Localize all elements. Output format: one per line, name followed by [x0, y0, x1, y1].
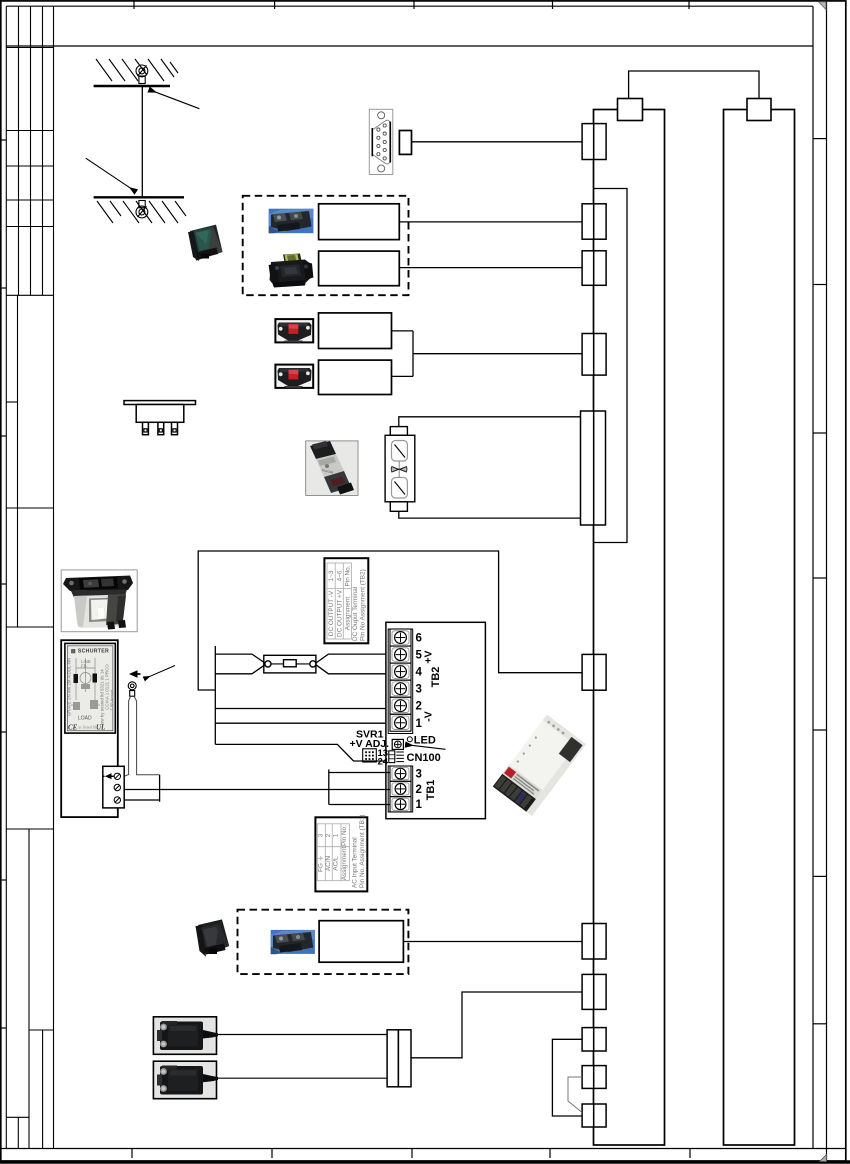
- leader arrow to earth lug: [144, 666, 175, 679]
- svg-text:24: 24: [378, 757, 389, 768]
- label box S1: [319, 313, 392, 349]
- ring terminal earth lug: [128, 682, 136, 696]
- svg-text:CCIAA 1 0121 1 PRCO: CCIAA 1 0121 1 PRCO: [105, 664, 110, 710]
- svg-text:1: 1: [333, 833, 340, 837]
- svg-text:TB2: TB2: [430, 667, 442, 688]
- svg-text:FG ⏚: FG ⏚: [317, 855, 325, 872]
- svg-text:2: 2: [325, 833, 332, 837]
- earth wire pair down to terminal strip: [124, 696, 159, 776]
- svg-text:LED: LED: [414, 734, 436, 746]
- photo: limit switch 2: [153, 1061, 218, 1099]
- photo: sensor amplifier (black): [269, 254, 314, 288]
- svg-text:5: 5: [416, 650, 423, 662]
- potentiometer SVR1: [392, 739, 403, 749]
- wire K1 to CN2: [399, 221, 582, 223]
- coil 1 with slash: [392, 441, 408, 462]
- wire bus to TB2-2: [215, 708, 386, 710]
- photo: solenoid valve: [306, 441, 358, 496]
- valve wires to CN5: [399, 417, 581, 518]
- TB1 pin number labels: [416, 769, 423, 812]
- photo: PSU (Mean Well): [493, 715, 586, 816]
- terminal strip X1: [103, 766, 124, 808]
- TB2 screw terminals 6..1: [390, 629, 411, 731]
- corner fold mark bottom right: [820, 1155, 827, 1162]
- photo: sensor head 2 (blue): [271, 930, 315, 954]
- SVR1 +V ADJ label: [350, 729, 390, 751]
- svg-text:Pin No. Assignment (TB1): Pin No. Assignment (TB1): [359, 814, 366, 888]
- connector CN4: [582, 334, 594, 376]
- svg-text:us listed ld: us listed ld: [78, 725, 97, 730]
- svg-text:DC Ouput Terminal: DC Ouput Terminal: [352, 587, 359, 641]
- wire bus to TB2-1: [215, 722, 386, 724]
- connector 13/24 dotted: [363, 748, 389, 768]
- connector CN8: [582, 974, 594, 1009]
- svg-text:▧ SCHURTER: ▧ SCHURTER: [71, 649, 109, 655]
- label box K2: [319, 251, 400, 286]
- svg-text:T BB Kessel: T BB Kessel: [110, 689, 114, 710]
- svg-text:DC OUTPUT +V: DC OUTPUT +V: [336, 589, 343, 637]
- wire CN9 loop to CN11: [552, 1039, 582, 1116]
- stem line: [398, 461, 400, 478]
- photo: rocker switch 2: [275, 365, 313, 388]
- connector CN10: [582, 1066, 594, 1089]
- TB2 screw strip frame: [388, 629, 413, 734]
- wire loop around DC section to CN6: [198, 551, 582, 690]
- wire bus to CN100: [215, 744, 389, 761]
- svg-text:FB: FB: [81, 664, 87, 669]
- coil 2 with slash: [392, 478, 408, 499]
- connector CN6: [582, 654, 594, 690]
- photo: green pushbutton cube: [188, 225, 223, 261]
- D-sub DB9 socket: [369, 109, 393, 174]
- junction connector J1: [387, 1030, 411, 1087]
- svg-text:AC Input Terminal: AC Input Terminal: [352, 837, 359, 888]
- filter spec label (SCHURTER): [65, 643, 115, 733]
- connector CN7: [582, 924, 594, 960]
- DB9 cable plug box: [399, 131, 411, 155]
- connector CN5: [581, 411, 594, 525]
- dashed enclosure: [243, 196, 409, 295]
- border zone dividers right column: [813, 139, 827, 1024]
- connector box on top of left rail: [618, 99, 643, 121]
- svg-text:Pin No.: Pin No.: [344, 565, 351, 586]
- svg-text:3: 3: [416, 769, 422, 781]
- svg-text:1: 1: [416, 799, 423, 811]
- bottom port tab: [390, 502, 407, 512]
- connector CN11: [582, 1104, 594, 1127]
- svg-text:1~3: 1~3: [328, 570, 335, 581]
- connector CN3: [582, 251, 594, 285]
- wire CN10 to CN11 (thin): [568, 1077, 582, 1113]
- svg-text:2: 2: [416, 701, 422, 713]
- control panel rail right: [724, 110, 795, 1146]
- svg-text:ww by nested fid 5321 ds 14: ww by nested fid 5321 ds 14: [100, 669, 105, 725]
- wire K3 to CN7: [403, 941, 582, 943]
- border zone ticks top: [134, 0, 689, 9]
- photo: limit switch 1: [153, 1017, 218, 1055]
- wire J1 to CN8: [411, 992, 582, 1058]
- flow bowtie: [391, 467, 398, 472]
- svg-text:GRAVE 2N ww 2M A/DDL-NN: GRAVE 2N ww 2M A/DDL-NN: [67, 658, 72, 716]
- wire S1/S2 join to CN4: [392, 331, 583, 377]
- fuse lead wires left: [215, 654, 265, 674]
- terminal block body: [386, 622, 486, 818]
- border zone ticks left: [0, 140, 6, 1028]
- connector CN100 hatched: [389, 751, 441, 764]
- TB1 wires from AC bus: [124, 770, 390, 805]
- hatch above top wall: [96, 59, 178, 81]
- arrow to top joint: [150, 90, 200, 109]
- connector CN1: [582, 124, 594, 160]
- connector CN2: [582, 204, 594, 239]
- top port tab: [390, 427, 407, 436]
- power inlet photo frame: [61, 570, 137, 632]
- assembly enclosure: [61, 640, 118, 817]
- svg-text:CE: CE: [68, 724, 78, 732]
- photo: IEC inlet module: [63, 576, 133, 630]
- svg-text:4~6: 4~6: [336, 570, 343, 581]
- wire DB9 to CN1: [412, 141, 583, 143]
- wire terminal-3 to earth bus: [124, 799, 159, 801]
- svg-text:AC/N: AC/N: [325, 855, 332, 871]
- valve body: [385, 435, 415, 502]
- TB1 screw strip frame: [388, 766, 413, 812]
- svg-text:3: 3: [416, 684, 422, 696]
- svg-text:DC OUTPUT -V: DC OUTPUT -V: [328, 590, 335, 636]
- eyebolt bottom: [136, 201, 148, 218]
- arrow to bottom joint: [86, 158, 136, 191]
- TB1 screw terminals 3..1: [390, 766, 411, 812]
- svg-text:Pin No.: Pin No.: [341, 825, 348, 846]
- photo: rocker switch 1: [275, 319, 313, 342]
- corner fold mark top right: [819, 2, 827, 10]
- svg-text:TB1: TB1: [425, 780, 437, 801]
- earth bus vertical: [159, 775, 161, 802]
- wire linking top boxes: [629, 71, 759, 99]
- hanging wire: [141, 86, 143, 197]
- label box K3: [319, 921, 403, 963]
- svg-text:1: 1: [416, 718, 423, 730]
- control panel rail left: [594, 110, 665, 1146]
- label box K1: [319, 204, 400, 240]
- svg-text:+V: +V: [423, 650, 435, 663]
- hatch below bottom wall: [97, 201, 186, 223]
- border zone ticks bottom: [132, 1149, 690, 1159]
- label box S2: [319, 360, 392, 394]
- photo: black cube switch: [196, 919, 230, 956]
- TB2 pin number labels: [416, 633, 423, 730]
- svg-text:UL: UL: [96, 724, 105, 732]
- dashed enclosure 2: [238, 910, 409, 974]
- svg-text:-V: -V: [423, 711, 435, 722]
- eyebolt top: [136, 65, 148, 84]
- connector box on top of right rail: [747, 99, 771, 121]
- svg-text:LOAD: LOAD: [78, 716, 92, 722]
- svg-text:Assignment: Assignment: [344, 597, 351, 631]
- svg-text:4: 4: [416, 667, 423, 679]
- fuse lead wires right to TB2-5 TB2-4: [316, 654, 386, 674]
- svg-text:AC/L: AC/L: [333, 856, 340, 871]
- fuse F1: [264, 655, 316, 673]
- wire switch2 to J1: [218, 1077, 387, 1079]
- DC bus vertical: [214, 646, 216, 744]
- LED indicator: [407, 737, 412, 742]
- svg-text:CN100: CN100: [407, 752, 441, 764]
- photo: sensor head (blue): [269, 209, 314, 234]
- svg-text:3: 3: [318, 833, 325, 837]
- svg-text:6: 6: [416, 633, 422, 645]
- wall line top: [94, 85, 170, 87]
- wire switch1 to J1: [218, 1034, 387, 1036]
- svg-text:Pin No Assignment (TB2): Pin No Assignment (TB2): [360, 569, 367, 641]
- svg-text:Assignment: Assignment: [341, 847, 348, 881]
- connector CN9: [582, 1028, 594, 1051]
- arrow to SVR1 pot: [406, 745, 446, 750]
- arrow flag to earth lug: [129, 670, 138, 678]
- inner sub-panel outline on left rail: [594, 189, 628, 543]
- wire K2 to CN3: [399, 267, 582, 269]
- wall line bottom: [94, 196, 184, 198]
- svg-text:2: 2: [416, 784, 422, 796]
